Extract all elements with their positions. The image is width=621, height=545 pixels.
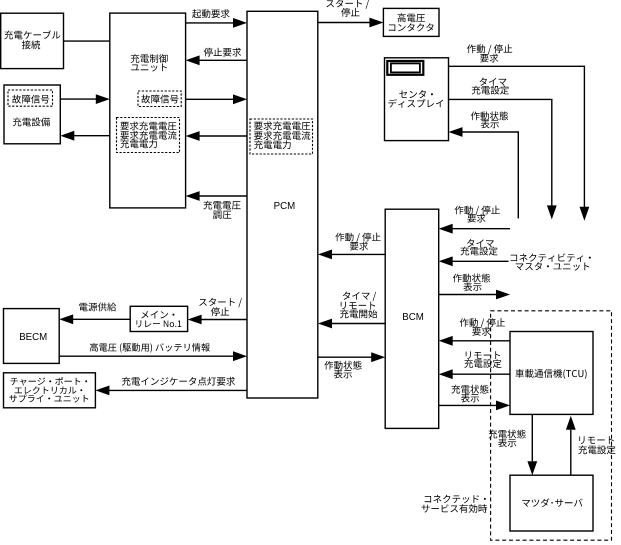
- label 停止 (上): [341, 8, 359, 17]
- label 作動/停止 (ディスプレイ): [467, 44, 512, 54]
- label メイン・ line1: [141, 311, 174, 319]
- label 作動/停止 (CMU-BCM): [455, 206, 500, 216]
- label 故障信号 (制御ユニット): [141, 95, 178, 104]
- box 車載通信機(TCU): [510, 332, 593, 415]
- label タイマ / line1: [343, 292, 376, 301]
- label 停止要求: [204, 48, 242, 57]
- wire リモート充電設定 (TCU-BCM): [445, 373, 510, 375]
- wire 停止要求: [192, 59, 247, 61]
- label センタ・ line1: [399, 90, 433, 98]
- dashed box 要求充電電圧・電流・電力 (PCM): [250, 119, 313, 154]
- wire 充電ケーブル接続-充電制御ユニット: [64, 40, 110, 42]
- box 充電ケーブル接続: [1, 13, 64, 68]
- box BECM: [4, 309, 60, 364]
- wire スタート/停止 (PCM-高電圧コンタクタ): [318, 22, 377, 24]
- label 故障信号 (充電設備): [12, 95, 49, 104]
- wire 要求充電電圧・電流・電力 (制御ユニット-充電設備): [66, 135, 110, 137]
- label サプライ・ユニット: [9, 394, 88, 402]
- wire 要求充電電圧・電流・電力 (PCM-制御ユニット): [192, 135, 247, 137]
- label 充電設定 (サーバ-TCU): [578, 445, 615, 454]
- svg-text:BECM: BECM: [19, 332, 47, 343]
- box PCM: [247, 11, 318, 398]
- wire スタート/停止 (PCM-メインリレー): [194, 319, 247, 321]
- label リモート (サーバ-TCU): [579, 436, 613, 444]
- box 高電圧コンタクタ: [383, 8, 439, 36]
- label チャージ・ポート・: [11, 377, 88, 385]
- label 充電設定 (TCU-BCM): [464, 359, 501, 368]
- wire 高電圧(駆動用)バッテリ情報: [59, 355, 240, 357]
- label 充電設定 (ディスプレイ): [472, 86, 509, 95]
- label 作動状態 (PCM-BCM): [324, 361, 361, 370]
- label 充電状態 (BCM-TCU): [451, 385, 488, 394]
- label スタート / (上): [326, 0, 369, 9]
- wire 充電電圧調圧: [192, 195, 247, 197]
- label リモート line2: [341, 302, 375, 310]
- wire 充電インジケータ点灯要求: [102, 389, 247, 391]
- label 車載通信機(TCU): [516, 369, 587, 379]
- label タイマ (CMU-BCM): [467, 239, 494, 247]
- dashed box 故障信号 (制御ユニット): [138, 91, 181, 107]
- wire リモート充電設定 (マツダサーバ-TCU): [570, 430, 572, 475]
- label 表示 (BCM-TCU): [461, 394, 479, 403]
- wire 充電状態表示 (BCM-TCU): [439, 404, 496, 406]
- label サービス有効時: [422, 504, 488, 513]
- label 高電圧(駆動用)バッテリ情報: [90, 343, 210, 353]
- label 充電電圧 line1: [203, 201, 240, 210]
- label コンタクタ line2: [389, 23, 434, 31]
- label 作動/停止 (TCU-BCM): [460, 318, 505, 328]
- label 表示 (TCU-サーバ): [498, 438, 516, 447]
- svg-text:BCM: BCM: [402, 312, 424, 323]
- dashed box 故障信号 (充電設備): [8, 90, 53, 106]
- wire 作動/停止要求 (TCU-BCM): [445, 340, 510, 342]
- label 表示 (BCM-CMU): [463, 282, 481, 291]
- wire 作動状態表示 (PCM-BCM): [318, 356, 379, 358]
- wire 電源供給: [65, 318, 130, 320]
- wire 故障信号 (充電設備-制御ユニット): [60, 98, 104, 100]
- label 表示 (PCM-BCM): [334, 370, 352, 379]
- label 要求充電電圧 (PCM): [254, 121, 310, 130]
- svg-text:PCM: PCM: [274, 201, 296, 212]
- label 充電ケーブル line1: [4, 30, 60, 39]
- label 要求充電電圧 (制御): [120, 122, 176, 131]
- label マツダ・サーバ: [522, 498, 582, 507]
- label 要求 (TCU-BCM): [472, 327, 490, 336]
- label 充電設備: [13, 118, 50, 127]
- label 充電電力 (PCM): [254, 140, 291, 149]
- label 充電状態 (TCU-サーバ): [489, 430, 526, 439]
- box センタ・ディスプレイ: [385, 58, 449, 141]
- wire 起動要求: [186, 22, 240, 24]
- wire 故障信号 (制御ユニット-PCM): [186, 98, 240, 100]
- label 電源供給: [79, 303, 116, 312]
- label スタート / (下): [199, 298, 242, 307]
- label 充電インジケータ点灯要求: [122, 377, 235, 386]
- wire 作動状態表示 (BCM-CMU): [439, 294, 496, 296]
- label マスタ・ユニット: [516, 262, 590, 270]
- label 充電電力 (制御): [120, 139, 157, 148]
- label 表示 (ディスプレイ): [481, 120, 499, 129]
- box 充電制御ユニット: [110, 13, 186, 208]
- box 充電設備: [4, 85, 60, 144]
- dashed box コネクテッド・サービス有効時: [491, 311, 612, 540]
- label ディスプレイ line2: [388, 99, 443, 108]
- label 停止 (下): [211, 307, 229, 316]
- box チャージ・ポート・エレクトリカル・サプライ・ユニット: [4, 373, 96, 408]
- wire 作動/停止要求 (ディスプレイ下り): [449, 66, 585, 207]
- label ユニット line2: [131, 63, 167, 71]
- label 要求 (ディスプレイ): [480, 54, 498, 63]
- wire 充電状態表示 (TCU-マツダサーバ): [531, 414, 533, 461]
- label リモート (TCU-BCM): [466, 351, 500, 359]
- label タイマ (ディスプレイ): [480, 78, 507, 86]
- display icon inner: [391, 63, 420, 72]
- label エレクトリカル・: [15, 386, 83, 394]
- label 作動/停止 (PCM-BCM): [335, 233, 380, 243]
- label コネクティビティ・: [511, 253, 591, 262]
- label 要求充電電流 (制御): [120, 131, 176, 140]
- label 充電制御 line1: [131, 54, 168, 63]
- label 調圧 line2: [213, 211, 231, 219]
- box メイン・リレー No.1: [130, 306, 187, 331]
- wire タイマ充電設定 (ディスプレイ下り): [449, 99, 552, 205]
- wire 作動/停止要求 (CMU-BCM): [445, 228, 510, 230]
- wire タイマ充電設定 (CMU-BCM): [445, 260, 509, 262]
- dashed box 要求充電電圧・電流・電力 (制御ユニット): [117, 118, 180, 153]
- label 要求 (PCM-BCM): [350, 242, 368, 251]
- label コネクテッド・: [425, 495, 486, 503]
- label 充電開始 line3: [340, 309, 377, 318]
- box マツダ・サーバ: [510, 475, 593, 531]
- label 起動要求: [192, 9, 230, 18]
- wire 作動/停止要求 (BCM-PCM): [324, 253, 385, 255]
- label 要求 (CMU-BCM): [467, 214, 485, 223]
- label 充電設定 (CMU-BCM): [460, 247, 497, 256]
- label 高電圧 line1: [398, 13, 426, 22]
- label 要求充電電流 (PCM): [254, 131, 310, 140]
- label 作動状態 (BCM-CMU): [453, 274, 490, 283]
- label 接続 line2: [22, 40, 40, 49]
- label 作動状態 (ディスプレイ): [471, 111, 508, 120]
- wire タイマ/リモート充電開始: [324, 323, 385, 325]
- label リレー No.1 line2: [136, 320, 181, 327]
- box BCM: [385, 209, 439, 428]
- wire 作動状態表示 (ディスプレイ向け): [455, 132, 518, 218]
- display icon outer: [387, 61, 423, 75]
